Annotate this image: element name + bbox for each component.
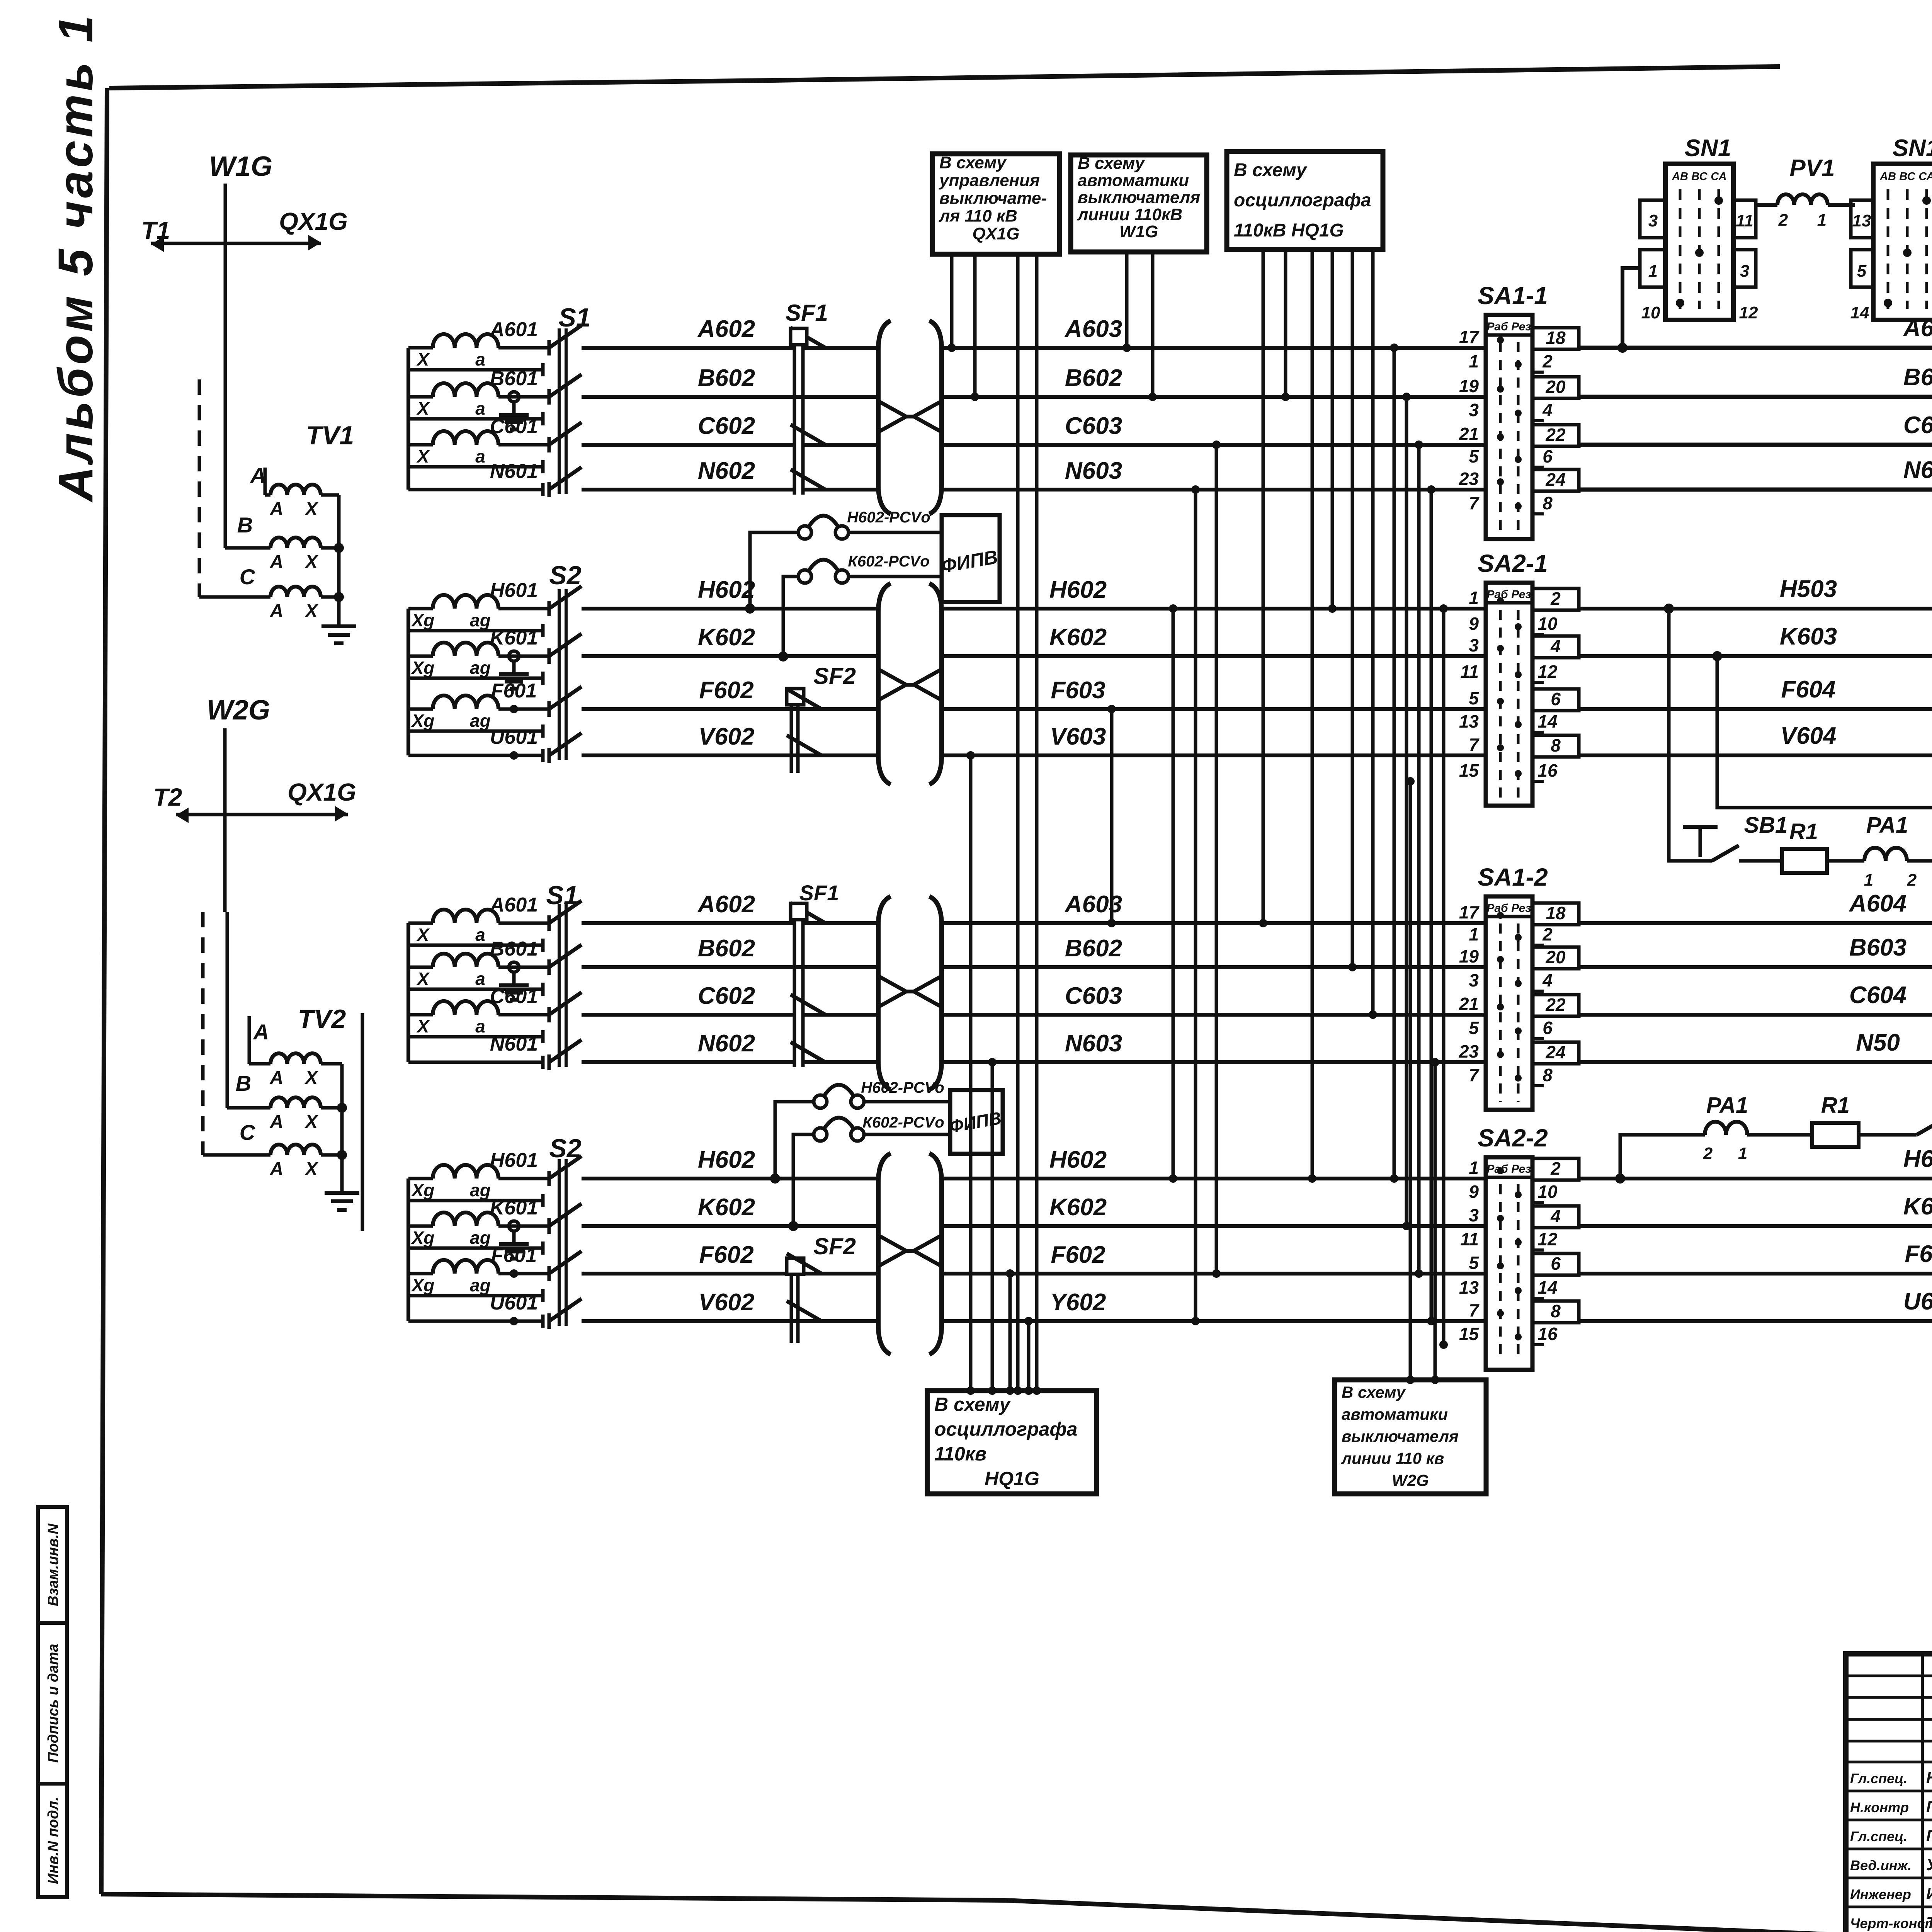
svg-text:N602: N602 bbox=[698, 1030, 755, 1057]
svg-text:V602: V602 bbox=[699, 723, 755, 750]
svg-text:Н602-PCVо: Н602-PCVо bbox=[847, 509, 930, 526]
svg-text:4: 4 bbox=[1542, 400, 1553, 420]
svg-text:осциллографа: осциллографа bbox=[1234, 190, 1371, 211]
svg-text:A603: A603 bbox=[1064, 891, 1122, 918]
svg-text:2: 2 bbox=[1550, 1158, 1561, 1179]
svg-text:19: 19 bbox=[1459, 376, 1479, 396]
svg-text:ВС: ВС bbox=[1899, 170, 1915, 183]
svg-text:АВ: АВ bbox=[1879, 170, 1896, 183]
svg-text:Горелик: Горелик bbox=[1926, 1827, 1932, 1845]
svg-text:SA2-1: SA2-1 bbox=[1478, 549, 1548, 577]
svg-text:20: 20 bbox=[1545, 377, 1566, 397]
svg-text:PV1: PV1 bbox=[1789, 155, 1835, 182]
svg-text:H603: H603 bbox=[1903, 1146, 1932, 1172]
svg-text:HQ1G: HQ1G bbox=[985, 1468, 1039, 1489]
svg-text:Н602-PCVо: Н602-PCVо bbox=[861, 1079, 944, 1096]
svg-text:8: 8 bbox=[1543, 493, 1553, 513]
svg-text:2: 2 bbox=[1542, 924, 1553, 944]
svg-text:1: 1 bbox=[1469, 588, 1479, 608]
svg-text:K601: K601 bbox=[490, 1197, 538, 1219]
svg-text:C603: C603 bbox=[1065, 413, 1122, 439]
svg-text:U601: U601 bbox=[490, 726, 538, 748]
svg-text:2: 2 bbox=[1542, 351, 1553, 371]
svg-text:2: 2 bbox=[1550, 588, 1561, 609]
svg-text:19: 19 bbox=[1459, 946, 1479, 966]
svg-text:линии 110 кв: линии 110 кв bbox=[1341, 1449, 1444, 1468]
svg-text:H503: H503 bbox=[1780, 576, 1837, 602]
svg-text:5: 5 bbox=[1469, 446, 1479, 466]
svg-text:1: 1 bbox=[1738, 1144, 1747, 1163]
svg-text:T2: T2 bbox=[153, 783, 182, 811]
svg-text:выключате-: выключате- bbox=[939, 189, 1047, 208]
svg-text:13: 13 bbox=[1459, 1277, 1479, 1298]
svg-text:N602: N602 bbox=[698, 457, 755, 484]
svg-text:ВС: ВС bbox=[1691, 170, 1708, 183]
svg-text:ag: ag bbox=[470, 1180, 491, 1200]
svg-text:Инженер: Инженер bbox=[1850, 1886, 1911, 1902]
svg-text:SA1-1: SA1-1 bbox=[1478, 282, 1548, 310]
svg-text:1: 1 bbox=[1817, 211, 1827, 230]
svg-text:C604: C604 bbox=[1903, 412, 1932, 439]
svg-text:Раб: Раб bbox=[1486, 320, 1509, 333]
svg-text:A: A bbox=[270, 1112, 284, 1132]
svg-text:N601: N601 bbox=[490, 460, 538, 483]
svg-text:24: 24 bbox=[1545, 469, 1565, 490]
svg-text:W1G: W1G bbox=[209, 151, 272, 182]
svg-text:2: 2 bbox=[1778, 211, 1788, 230]
svg-text:QX1G: QX1G bbox=[287, 778, 356, 806]
svg-text:X: X bbox=[304, 1159, 319, 1179]
svg-text:1: 1 bbox=[1469, 351, 1479, 371]
svg-text:15: 15 bbox=[1459, 760, 1480, 781]
svg-text:Никитин: Никитин bbox=[1926, 1769, 1932, 1787]
svg-text:K602: K602 bbox=[1049, 1194, 1107, 1221]
svg-text:X: X bbox=[416, 1016, 430, 1036]
svg-text:18: 18 bbox=[1546, 328, 1566, 348]
svg-text:Рез: Рез bbox=[1511, 320, 1531, 333]
svg-text:8: 8 bbox=[1551, 1301, 1561, 1321]
svg-text:6: 6 bbox=[1543, 1018, 1553, 1038]
svg-text:ag: ag bbox=[470, 610, 491, 630]
svg-text:F601: F601 bbox=[491, 1244, 537, 1267]
svg-text:H601: H601 bbox=[490, 1149, 538, 1172]
svg-text:SN1: SN1 bbox=[1893, 135, 1932, 162]
svg-text:PA1: PA1 bbox=[1706, 1093, 1748, 1118]
svg-text:15: 15 bbox=[1459, 1324, 1480, 1344]
svg-text:K602: K602 bbox=[698, 624, 755, 651]
svg-text:Взам.инв.N: Взам.инв.N bbox=[45, 1523, 61, 1606]
svg-text:a: a bbox=[475, 398, 485, 418]
svg-text:ля 110 кВ: ля 110 кВ bbox=[939, 207, 1017, 226]
svg-text:Инв.N подл.: Инв.N подл. bbox=[45, 1797, 61, 1884]
svg-text:a: a bbox=[475, 349, 485, 369]
svg-text:V602: V602 bbox=[699, 1289, 755, 1316]
svg-text:12: 12 bbox=[1739, 303, 1758, 322]
svg-text:1: 1 bbox=[1648, 262, 1658, 281]
svg-text:14: 14 bbox=[1537, 711, 1557, 731]
svg-text:K601: K601 bbox=[490, 627, 538, 649]
svg-text:4: 4 bbox=[1542, 970, 1553, 990]
svg-text:5: 5 bbox=[1469, 1253, 1479, 1273]
svg-text:Гл.спец.: Гл.спец. bbox=[1850, 1770, 1907, 1786]
svg-text:TV2: TV2 bbox=[298, 1004, 346, 1034]
svg-text:N603: N603 bbox=[1065, 457, 1122, 484]
svg-text:A: A bbox=[270, 499, 284, 519]
svg-text:3: 3 bbox=[1469, 970, 1479, 990]
svg-text:A603: A603 bbox=[1064, 316, 1122, 342]
svg-text:Xg: Xg bbox=[411, 1228, 435, 1248]
svg-text:выключателя: выключателя bbox=[1078, 188, 1200, 207]
svg-text:X: X bbox=[416, 446, 430, 466]
svg-text:1: 1 bbox=[1469, 924, 1479, 944]
svg-text:7: 7 bbox=[1469, 493, 1480, 513]
svg-text:N603: N603 bbox=[1065, 1030, 1122, 1057]
svg-text:Подпись и дата: Подпись и дата bbox=[45, 1644, 61, 1763]
svg-text:F604: F604 bbox=[1781, 676, 1835, 703]
svg-text:K603: K603 bbox=[1780, 623, 1837, 650]
svg-text:W2G: W2G bbox=[1392, 1471, 1429, 1490]
svg-text:ag: ag bbox=[470, 711, 491, 731]
svg-text:S1: S1 bbox=[558, 303, 590, 332]
svg-text:11: 11 bbox=[1460, 662, 1479, 682]
svg-text:a: a bbox=[475, 1016, 485, 1036]
svg-text:F602: F602 bbox=[699, 677, 753, 704]
svg-text:SF2: SF2 bbox=[813, 663, 856, 689]
svg-text:110кВ HQ1G: 110кВ HQ1G bbox=[1234, 220, 1344, 241]
svg-text:T1: T1 bbox=[141, 216, 170, 244]
svg-text:Xg: Xg bbox=[411, 711, 435, 731]
svg-text:SF1: SF1 bbox=[786, 300, 828, 326]
svg-text:6: 6 bbox=[1551, 689, 1561, 709]
svg-text:9: 9 bbox=[1469, 614, 1479, 634]
svg-text:X: X bbox=[416, 349, 430, 369]
svg-text:U604: U604 bbox=[1903, 1288, 1932, 1315]
svg-text:B603: B603 bbox=[1849, 934, 1906, 961]
svg-text:Н.контр: Н.контр bbox=[1850, 1799, 1909, 1815]
svg-text:В схему: В схему bbox=[1342, 1383, 1406, 1401]
svg-text:21: 21 bbox=[1459, 994, 1479, 1014]
svg-text:12: 12 bbox=[1537, 662, 1558, 682]
svg-text:W1G: W1G bbox=[1119, 222, 1158, 241]
svg-text:X: X bbox=[304, 499, 319, 519]
svg-text:B602: B602 bbox=[1065, 935, 1122, 962]
svg-text:17: 17 bbox=[1459, 902, 1480, 922]
svg-text:23: 23 bbox=[1459, 1041, 1479, 1061]
svg-text:X: X bbox=[304, 1068, 319, 1088]
svg-text:5: 5 bbox=[1469, 1018, 1479, 1038]
svg-text:СА: СА bbox=[1918, 170, 1932, 183]
svg-text:К602-PCVо: К602-PCVо bbox=[848, 553, 929, 570]
svg-text:SF1: SF1 bbox=[799, 881, 839, 905]
svg-text:автоматики: автоматики bbox=[1078, 171, 1189, 190]
svg-text:A604: A604 bbox=[1849, 890, 1906, 917]
svg-text:2: 2 bbox=[1907, 871, 1917, 889]
svg-text:N604: N604 bbox=[1903, 457, 1932, 483]
svg-text:S1: S1 bbox=[546, 881, 578, 910]
svg-text:B602: B602 bbox=[1065, 365, 1122, 391]
svg-text:X: X bbox=[416, 925, 430, 945]
svg-text:3: 3 bbox=[1469, 1205, 1479, 1225]
svg-text:24: 24 bbox=[1545, 1042, 1565, 1062]
svg-text:Рез: Рез bbox=[1511, 1163, 1531, 1175]
svg-text:Иванова: Иванова bbox=[1926, 1884, 1932, 1903]
svg-text:В схему: В схему bbox=[934, 1393, 1011, 1415]
svg-text:V603: V603 bbox=[1050, 723, 1106, 750]
svg-text:Тимофеева: Тимофеева bbox=[1926, 1913, 1932, 1932]
svg-text:2: 2 bbox=[1703, 1144, 1713, 1163]
svg-text:осциллографа: осциллографа bbox=[934, 1418, 1077, 1440]
svg-text:10: 10 bbox=[1537, 614, 1558, 634]
svg-text:6: 6 bbox=[1551, 1253, 1561, 1274]
svg-text:К602-PCVо: К602-PCVо bbox=[862, 1114, 944, 1131]
svg-text:X: X bbox=[304, 1112, 319, 1132]
svg-text:B602: B602 bbox=[698, 935, 755, 962]
svg-text:Xg: Xg bbox=[411, 1275, 435, 1295]
svg-text:Рез: Рез bbox=[1511, 902, 1531, 915]
svg-text:17: 17 bbox=[1459, 327, 1480, 347]
svg-text:автоматики: автоматики bbox=[1342, 1405, 1448, 1423]
svg-text:U601: U601 bbox=[490, 1292, 538, 1314]
svg-text:X: X bbox=[304, 552, 319, 572]
svg-text:A601: A601 bbox=[489, 894, 538, 916]
svg-text:Xg: Xg bbox=[411, 658, 435, 678]
svg-text:W2G: W2G bbox=[207, 695, 270, 726]
svg-text:TV1: TV1 bbox=[306, 421, 354, 450]
svg-text:22: 22 bbox=[1545, 995, 1566, 1015]
svg-text:110кв: 110кв bbox=[934, 1443, 986, 1464]
svg-text:12: 12 bbox=[1537, 1229, 1558, 1249]
svg-text:R1: R1 bbox=[1789, 819, 1818, 844]
svg-text:АВ: АВ bbox=[1672, 170, 1688, 183]
svg-text:3: 3 bbox=[1469, 635, 1479, 655]
svg-text:3: 3 bbox=[1740, 262, 1749, 281]
svg-text:1: 1 bbox=[1469, 1158, 1479, 1178]
svg-text:16: 16 bbox=[1537, 760, 1558, 781]
svg-text:Горелик: Горелик bbox=[1926, 1798, 1932, 1816]
svg-text:13: 13 bbox=[1852, 211, 1871, 230]
svg-text:A: A bbox=[270, 601, 284, 621]
svg-text:Раб: Раб bbox=[1486, 902, 1509, 915]
svg-text:Урипуннова: Урипуннова bbox=[1926, 1855, 1932, 1874]
svg-text:18: 18 bbox=[1546, 903, 1566, 923]
svg-text:C603: C603 bbox=[1065, 983, 1122, 1009]
svg-text:линии 110кВ: линии 110кВ bbox=[1077, 205, 1182, 224]
svg-text:Xg: Xg bbox=[411, 1180, 435, 1200]
svg-text:Y602: Y602 bbox=[1050, 1289, 1106, 1316]
svg-text:A: A bbox=[253, 1020, 269, 1044]
svg-text:QX1G: QX1G bbox=[972, 224, 1019, 243]
svg-text:A602: A602 bbox=[697, 891, 755, 918]
svg-text:N50: N50 bbox=[1856, 1029, 1900, 1056]
svg-text:22: 22 bbox=[1545, 425, 1566, 445]
svg-text:S2: S2 bbox=[549, 1134, 581, 1163]
svg-text:X: X bbox=[304, 601, 319, 621]
svg-text:20: 20 bbox=[1545, 947, 1566, 967]
svg-text:F602: F602 bbox=[1051, 1242, 1105, 1268]
svg-text:B601: B601 bbox=[490, 367, 538, 390]
svg-text:11: 11 bbox=[1736, 211, 1753, 230]
svg-text:C604: C604 bbox=[1849, 982, 1906, 1009]
svg-text:SA2-2: SA2-2 bbox=[1478, 1124, 1548, 1152]
svg-text:SB1: SB1 bbox=[1744, 813, 1788, 838]
svg-text:10: 10 bbox=[1641, 303, 1660, 322]
svg-text:K603: K603 bbox=[1903, 1193, 1932, 1220]
svg-text:H602: H602 bbox=[698, 577, 755, 603]
svg-text:F604: F604 bbox=[1905, 1241, 1932, 1267]
svg-text:X: X bbox=[416, 398, 430, 418]
svg-text:SN1: SN1 bbox=[1685, 135, 1731, 162]
svg-text:B603: B603 bbox=[1903, 364, 1932, 391]
svg-text:В схему: В схему bbox=[1234, 160, 1308, 180]
svg-text:H602: H602 bbox=[1049, 577, 1107, 603]
svg-text:a: a bbox=[475, 446, 485, 466]
svg-text:Вед.инж.: Вед.инж. bbox=[1850, 1857, 1912, 1873]
svg-text:C601: C601 bbox=[490, 985, 538, 1008]
svg-text:В схему: В схему bbox=[939, 153, 1007, 172]
svg-text:13: 13 bbox=[1459, 711, 1479, 731]
svg-text:C: C bbox=[240, 1120, 256, 1145]
svg-text:K602: K602 bbox=[698, 1194, 755, 1221]
svg-text:5: 5 bbox=[1469, 688, 1479, 708]
svg-text:14: 14 bbox=[1537, 1277, 1557, 1298]
svg-text:4: 4 bbox=[1550, 636, 1561, 656]
svg-text:7: 7 bbox=[1469, 1065, 1480, 1085]
svg-text:C: C bbox=[240, 565, 256, 589]
svg-text:C601: C601 bbox=[490, 415, 538, 438]
svg-text:PA1: PA1 bbox=[1866, 813, 1908, 838]
svg-text:9: 9 bbox=[1469, 1182, 1479, 1202]
svg-text:X: X bbox=[416, 969, 430, 989]
svg-text:Xg: Xg bbox=[411, 610, 435, 630]
svg-text:ag: ag bbox=[470, 1228, 491, 1248]
svg-text:B602: B602 bbox=[698, 365, 755, 391]
svg-text:SF2: SF2 bbox=[813, 1233, 856, 1259]
svg-text:B: B bbox=[236, 1071, 251, 1095]
svg-text:K602: K602 bbox=[1049, 624, 1107, 651]
svg-text:23: 23 bbox=[1459, 469, 1479, 489]
svg-text:SA1-2: SA1-2 bbox=[1478, 863, 1548, 891]
svg-text:ag: ag bbox=[470, 1275, 491, 1295]
svg-text:C602: C602 bbox=[698, 983, 755, 1009]
svg-text:выключателя: выключателя bbox=[1342, 1427, 1459, 1446]
svg-text:R1: R1 bbox=[1821, 1093, 1850, 1118]
svg-text:10: 10 bbox=[1537, 1182, 1558, 1202]
svg-text:F603: F603 bbox=[1051, 677, 1105, 704]
svg-text:4: 4 bbox=[1550, 1206, 1561, 1226]
svg-text:21: 21 bbox=[1459, 424, 1479, 444]
svg-text:16: 16 bbox=[1537, 1324, 1558, 1344]
svg-text:QX1G: QX1G bbox=[279, 207, 348, 235]
svg-text:A: A bbox=[270, 1159, 284, 1179]
svg-text:F602: F602 bbox=[699, 1242, 753, 1268]
svg-text:11: 11 bbox=[1460, 1229, 1479, 1249]
svg-text:C602: C602 bbox=[698, 413, 755, 439]
svg-text:A602: A602 bbox=[697, 316, 755, 342]
svg-text:A601: A601 bbox=[489, 318, 538, 341]
svg-text:B: B bbox=[237, 513, 253, 537]
svg-text:A: A bbox=[270, 552, 284, 572]
svg-text:В схему: В схему bbox=[1078, 154, 1145, 173]
svg-text:H601: H601 bbox=[490, 579, 538, 602]
svg-text:a: a bbox=[475, 925, 485, 945]
svg-text:H602: H602 bbox=[1049, 1146, 1107, 1173]
svg-text:1: 1 bbox=[1864, 871, 1873, 889]
svg-text:N601: N601 bbox=[490, 1033, 538, 1055]
svg-text:8: 8 bbox=[1551, 735, 1561, 755]
svg-text:8: 8 bbox=[1543, 1065, 1553, 1085]
svg-text:14: 14 bbox=[1850, 303, 1869, 322]
svg-text:Гл.спец.: Гл.спец. bbox=[1850, 1828, 1907, 1844]
svg-text:СА: СА bbox=[1711, 170, 1726, 183]
svg-text:S2: S2 bbox=[549, 561, 581, 590]
svg-text:Альбом 5 часть 1: Альбом 5 часть 1 bbox=[48, 12, 103, 503]
svg-text:5: 5 bbox=[1857, 262, 1867, 281]
svg-text:управления: управления bbox=[939, 171, 1040, 190]
svg-text:3: 3 bbox=[1469, 400, 1479, 420]
svg-text:7: 7 bbox=[1469, 1300, 1480, 1320]
svg-text:a: a bbox=[475, 969, 485, 989]
svg-text:V604: V604 bbox=[1781, 723, 1837, 749]
svg-text:7: 7 bbox=[1469, 735, 1480, 755]
svg-text:B601: B601 bbox=[490, 938, 538, 960]
svg-text:ag: ag bbox=[470, 658, 491, 678]
svg-text:Черт-конст: Черт-конст bbox=[1850, 1915, 1932, 1931]
svg-text:3: 3 bbox=[1648, 211, 1658, 230]
svg-text:Рез: Рез bbox=[1511, 588, 1531, 601]
svg-text:H602: H602 bbox=[698, 1146, 755, 1173]
svg-text:6: 6 bbox=[1543, 446, 1553, 466]
svg-text:A: A bbox=[270, 1068, 284, 1088]
